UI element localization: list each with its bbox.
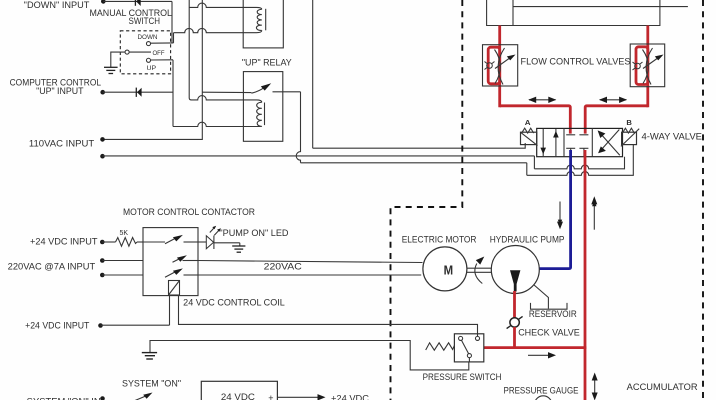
wire relay K1 output drop (312, 0, 314, 148)
wire 220VAC phase A to motor (198, 261, 423, 263)
flow control valve FC2 body (630, 44, 665, 87)
4-way valve right cell crossed arrows (600, 133, 620, 155)
svg-text:A: A (525, 118, 531, 127)
pump symbol triangle (510, 270, 520, 291)
solenoid B (622, 132, 637, 144)
solenoid A (521, 132, 537, 144)
wire 110VAC neutral drop to valve inner loop (533, 156, 535, 169)
svg-text:ACCUMULATOR: ACCUMULATOR (627, 382, 698, 392)
pressure flow up arrow (593, 203, 595, 230)
wire UP-relay coil bottom feed (hop over bus2) (173, 122, 262, 126)
contactor pole 2 (173, 259, 179, 262)
wire DOWN-relay coil top feed (hop over bus2) (189, 3, 262, 9)
pressure switch contacts (459, 336, 463, 340)
svg-text:"UP" INPUT: "UP" INPUT (36, 86, 84, 96)
blue tank line valve to pump (539, 150, 571, 269)
contactor pole 1 (143, 241, 165, 243)
node system on terminal (100, 396, 105, 400)
dashed boundary right (702, 0, 704, 400)
wire computer-up input (103, 91, 173, 93)
delivery flow arrow (528, 354, 551, 356)
wire 24VDC out arrow (277, 396, 320, 398)
contactor box (143, 228, 198, 296)
wire valve-A feed line (313, 143, 526, 148)
node +24 VDC input terminal (100, 240, 105, 245)
svg-text:HYDRAULIC PUMP: HYDRAULIC PUMP (490, 234, 565, 244)
pressure gauge (clipped) (535, 396, 552, 400)
red pressure line valve to accumulator run (584, 150, 587, 400)
svg-text:SYSTEM "ON": SYSTEM "ON" (122, 379, 181, 389)
tank flow down arrow (559, 202, 561, 226)
flow control valve FC1 adjust arrow (495, 58, 511, 69)
bus wire 1 (to relay coil tops) (189, 0, 262, 102)
LED anode wire (198, 241, 206, 243)
flow control valve FC2 check ball (635, 63, 641, 69)
svg-text:OFF: OFF (153, 50, 165, 57)
contact DOWN (146, 42, 150, 46)
red delivery line pressure switch to main run (484, 346, 587, 349)
wire valve inner loop (hops over tank/pressure lines) (534, 157, 624, 169)
flow control valve FC2 adjust arrow (643, 58, 659, 69)
LED emission arrows (210, 228, 214, 233)
red line cylinder rod-end to right flow control (646, 26, 649, 108)
dashed boundary electrical/hydraulic (391, 0, 463, 400)
relay K1 "DOWN" relay body (clipped at top) (243, 0, 283, 48)
LED cathode wire (214, 242, 240, 244)
svg-text:SWITCH: SWITCH (129, 16, 161, 26)
svg-text:MOTOR CONTROL CONTACTOR: MOTOR CONTROL CONTACTOR (123, 207, 255, 217)
manual control switch S1 (dashed enclosure) (120, 31, 170, 74)
wire UP contact down to relay coil row (172, 60, 174, 127)
flow control valve FC2 bypass loop (red) (636, 47, 648, 85)
flow control valve FC1 bypass loop (red) (488, 47, 500, 84)
svg-text:SYSTEM "ON" IN: SYSTEM "ON" IN (27, 397, 101, 400)
contactor coil (24VDC) (169, 281, 180, 296)
hydraulic cylinder (clipped at top) (486, 0, 688, 26)
svg-text:"DOWN" INPUT: "DOWN" INPUT (24, 0, 90, 10)
pressure switch lever (461, 340, 468, 354)
wire +24VDC to coil left leg (101, 324, 170, 326)
flow control valve FC1 body (483, 45, 518, 86)
wire coil right leg to pressure switch (179, 295, 478, 336)
wire 110VAC neutral line (103, 155, 535, 157)
red line cylinder cap-end to left flow control (498, 26, 501, 108)
relay K2 contact lever (251, 88, 263, 93)
system on switch lever (135, 396, 147, 400)
svg-text:FLOW CONTROL VALVES: FLOW CONTROL VALVES (521, 57, 631, 67)
wire relay K2 common from bus2 (202, 91, 251, 93)
node 220VAC @7A input terminals (100, 258, 105, 263)
4-way valve left cell parallel arrows (542, 129, 544, 156)
contact UP (146, 58, 150, 62)
svg-text:PRESSURE SWITCH: PRESSURE SWITCH (423, 372, 502, 382)
svg-text:PRESSURE GAUGE: PRESSURE GAUGE (504, 386, 579, 396)
svg-text:+: + (268, 393, 273, 400)
wire relay K2 output drop (jog over 110VAC line) (296, 92, 300, 163)
bus wire 2 (110VAC hot riser) (103, 0, 203, 139)
svg-text:RESERVOIR: RESERVOIR (529, 309, 577, 319)
red line FC1 to valve port A (500, 106, 571, 134)
wire switch common to ground (111, 52, 125, 67)
wire 220VAC inputs to contactor (102, 260, 143, 262)
relay K1 coil (256, 9, 261, 30)
ground (pressure switch return) (142, 353, 157, 359)
24 VDC supply box (clipped) (201, 381, 277, 400)
node "DOWN" input terminal (101, 0, 106, 4)
node +24 VDC input (coil) terminal (98, 323, 103, 328)
reservoir link line (534, 285, 549, 309)
svg-text:M: M (444, 262, 454, 277)
red pump outlet line (513, 291, 516, 319)
svg-text:+24 VDC INPUT: +24 VDC INPUT (25, 321, 90, 331)
wire valve outer loop (hops over tank/pressure lines) (527, 145, 634, 176)
wire valve outer loop drop (526, 163, 528, 176)
red check valve outlet (513, 327, 516, 349)
wire down-input drop to switch (171, 1, 173, 43)
4-way valve body (537, 128, 623, 156)
motor shaft coupling (467, 267, 492, 269)
wire down-input horizontal (103, 0, 172, 2)
svg-text:"UP" RELAY: "UP" RELAY (242, 57, 292, 67)
relay K2 body (243, 72, 282, 142)
4-way valve center cell blocked ports (566, 135, 588, 157)
svg-text:+24 VDC: +24 VDC (331, 394, 370, 400)
svg-text:DOWN: DOWN (138, 34, 158, 41)
svg-text:ELECTRIC MOTOR: ELECTRIC MOTOR (402, 234, 477, 244)
svg-text:B: B (626, 118, 632, 127)
relay K2 core bar (264, 103, 266, 126)
wire DOWN-relay coil bottom feed (hops over bus1,bus2) (174, 28, 262, 32)
diode D2 (computer up input) (135, 88, 137, 97)
svg-text:110VAC INPUT: 110VAC INPUT (29, 138, 95, 148)
pressure switch PS1 body (454, 334, 483, 362)
wire valve-B feed line (301, 162, 527, 164)
ground (LED) (232, 246, 245, 252)
wire relay K2 output (273, 91, 301, 93)
rotation arrow (475, 264, 482, 284)
svg-text:24 VDC: 24 VDC (221, 392, 256, 400)
svg-text:"PUMP ON" LED: "PUMP ON" LED (219, 228, 289, 238)
reservoir tank symbol (531, 303, 568, 309)
ground (manual switch) (104, 67, 118, 73)
hydraulic pump P1 (491, 246, 539, 294)
flow control valve FC1 check ball (487, 63, 493, 69)
check valve CV1 (510, 318, 519, 327)
relay K1 core bar (265, 9, 267, 31)
contact OFF with wiper line (125, 50, 129, 54)
electric motor M1 (423, 247, 467, 291)
flow direction double arrow right (599, 97, 627, 103)
node computer "UP" input terminal (100, 90, 105, 95)
LED "PUMP ON" (206, 236, 213, 249)
svg-text:CHECK VALVE: CHECK VALVE (518, 328, 580, 338)
svg-text:5K: 5K (120, 230, 129, 237)
svg-text:220VAC: 220VAC (264, 262, 303, 272)
relay K2 coil (257, 102, 262, 126)
svg-text:220VAC @7A INPUT: 220VAC @7A INPUT (8, 262, 96, 272)
contactor pole 3 (165, 272, 175, 277)
accumulator flow double arrow (594, 378, 596, 396)
node 110VAC input terminals (100, 137, 105, 142)
svg-text:24 VDC CONTROL COIL: 24 VDC CONTROL COIL (183, 297, 285, 307)
wire DOWN contact riser (173, 33, 175, 43)
diode D1 (down input, clipped at top) (134, 0, 136, 6)
flow control valve FC1 throttle curves (498, 48, 504, 85)
resistor R1 (102, 241, 115, 243)
pressure switch spring (426, 343, 455, 350)
svg-text:4-WAY VALVE: 4-WAY VALVE (642, 132, 703, 142)
svg-text:UP: UP (147, 65, 157, 72)
flow direction double arrow left (528, 97, 556, 103)
wire pressure switch return to ground (150, 341, 469, 370)
wire 220VAC phase B to motor (198, 274, 421, 276)
flow control valve FC2 throttle curves (646, 48, 652, 85)
svg-text:+24 VDC INPUT: +24 VDC INPUT (30, 236, 98, 246)
red line FC2 to valve port B (585, 106, 648, 134)
